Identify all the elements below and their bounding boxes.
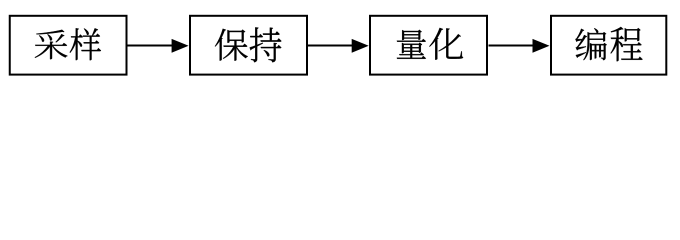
text glyph 量 (liang) <box>397 30 426 59</box>
wire arrow 2 shaft <box>308 45 353 47</box>
text glyph 保 (bao) <box>215 29 248 61</box>
box 采样 (sampling) <box>10 16 127 75</box>
flowchart: sampling -> hold -> quantize -> encode <box>0 0 680 87</box>
box 保持 (hold) <box>190 16 307 75</box>
text glyph 样 (yang) <box>70 28 101 60</box>
wire arrow 3 head <box>533 39 550 53</box>
box 量化 (quantize) <box>370 16 487 75</box>
text glyph 采 (cai) <box>35 30 68 59</box>
text glyph 编 (bian) <box>575 28 606 60</box>
wire arrow 1 head <box>172 39 189 53</box>
text glyph 化 (hua) <box>429 28 463 60</box>
wire arrow 1 shaft <box>128 45 174 47</box>
text glyph 程 (cheng) <box>611 27 643 61</box>
wire arrow 2 head <box>352 39 369 53</box>
wire arrow 3 shaft <box>489 45 535 47</box>
box 编程 (encode) <box>551 16 666 75</box>
text glyph 持 (chi) <box>250 27 282 62</box>
